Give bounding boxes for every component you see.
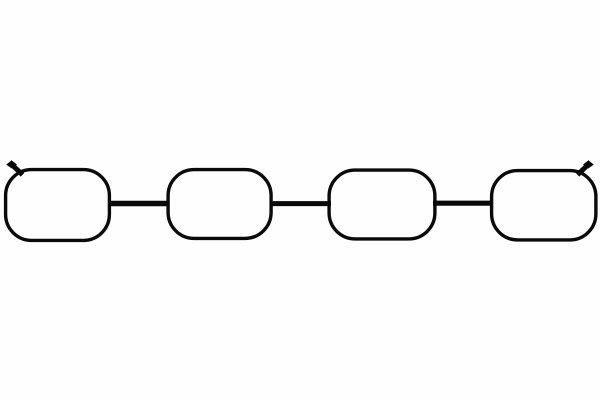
gasket port 1	[6, 170, 110, 241]
link bar 1-2	[109, 201, 168, 206]
gasket port 2	[168, 170, 271, 239]
mounting tab right	[578, 160, 594, 175]
mounting tab left	[6, 160, 22, 175]
link bar 2-3	[271, 201, 331, 206]
gasket port 4	[492, 171, 596, 240]
link bar 3-4	[433, 201, 491, 206]
gasket port 3	[329, 170, 435, 239]
